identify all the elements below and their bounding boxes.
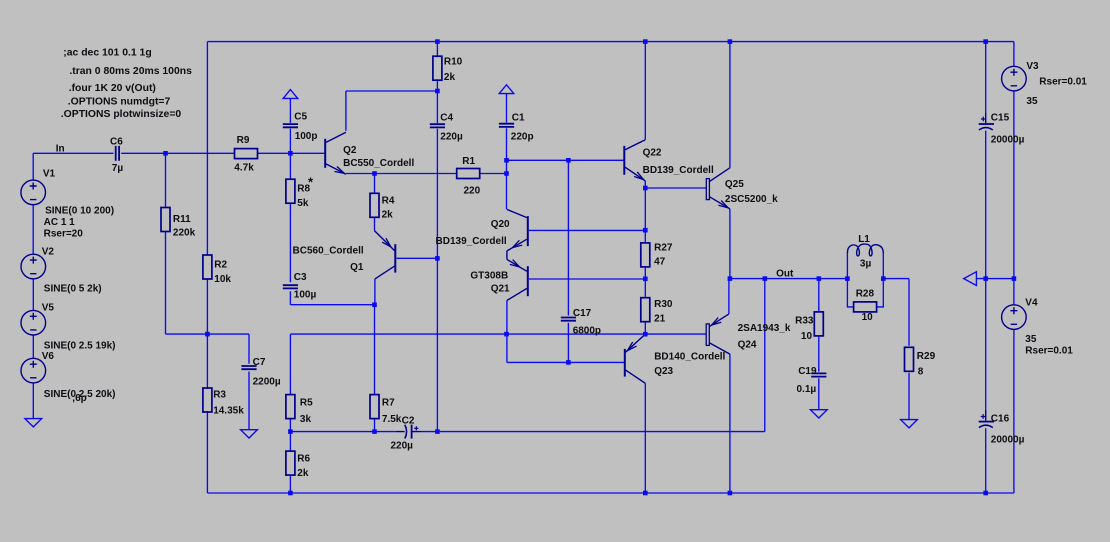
svg-text:.OPTIONS plotwinsize=0: .OPTIONS plotwinsize=0 — [61, 109, 182, 120]
svg-text:R28: R28 — [856, 288, 875, 299]
svg-text:SINE(0 5 2k): SINE(0 5 2k) — [44, 284, 102, 295]
ground below R29 — [901, 420, 918, 428]
svg-text:In: In — [56, 143, 65, 154]
inductor L1 — [847, 244, 883, 256]
wire Q1 collector R7 column — [374, 279, 376, 432]
svg-text:Q21: Q21 — [491, 283, 510, 294]
resistor R1 — [457, 169, 480, 179]
wire C7 column — [248, 334, 250, 430]
svg-text:C6: C6 — [110, 136, 123, 147]
wire R28 legs — [847, 279, 883, 307]
svg-text:.four 1K 20 v(Out): .four 1K 20 v(Out) — [69, 83, 156, 94]
wire left rail through R2 R3 — [206, 42, 208, 493]
wire Q23 collector to rail — [644, 383, 646, 493]
wire bottom negative rail — [207, 492, 1014, 494]
svg-text:100µ: 100µ — [294, 290, 317, 301]
wire C5 stem — [289, 98, 291, 153]
resistor R7 — [370, 395, 379, 419]
svg-text:,6p: ,6p — [72, 393, 86, 404]
resistor R9 — [235, 149, 258, 159]
capacitor C16 polarized — [985, 410, 987, 421]
transistor Q21 GT308B pnp mirrored — [527, 266, 529, 296]
junction — [643, 39, 648, 44]
voltage source V2 — [21, 254, 46, 279]
svg-text:V3: V3 — [1026, 61, 1039, 72]
svg-text:Q25: Q25 — [725, 179, 744, 190]
svg-text:V4: V4 — [1025, 298, 1038, 309]
svg-text:SINE(0 10 200): SINE(0 10 200) — [45, 206, 114, 217]
wire Q22 collector — [644, 42, 646, 140]
svg-text:;ac dec 101 0.1 1g: ;ac dec 101 0.1 1g — [63, 48, 151, 59]
svg-text:10: 10 — [862, 312, 874, 323]
junction — [504, 332, 509, 337]
transistor Q22 BD139 npn — [623, 146, 625, 175]
wire C1 column — [506, 94, 508, 209]
wire Q21 base to R30 top — [529, 278, 645, 280]
svg-text:V6: V6 — [42, 351, 55, 362]
wire C16 column — [985, 279, 987, 493]
ground below C7 — [241, 430, 258, 438]
resistor R33 — [814, 312, 823, 336]
junction — [435, 39, 440, 44]
capacitor C1 — [499, 124, 514, 127]
power flag above C1 — [499, 85, 514, 94]
svg-text:V2: V2 — [42, 247, 55, 258]
wire R5 R6 column — [289, 334, 291, 493]
svg-text:5k: 5k — [297, 198, 309, 209]
junction — [728, 491, 733, 496]
resistor R6 — [286, 451, 295, 475]
resistor R2 — [203, 255, 212, 279]
svg-text:10k: 10k — [214, 274, 231, 285]
svg-text:AC 1 1: AC 1 1 — [44, 217, 76, 228]
wire Q24 emitter to Out — [728, 279, 730, 314]
svg-text:BD139_Cordell: BD139_Cordell — [643, 165, 714, 176]
svg-text:C2: C2 — [402, 415, 415, 426]
junction — [728, 39, 733, 44]
svg-text:C4: C4 — [440, 112, 453, 123]
svg-text:R4: R4 — [382, 195, 395, 206]
wire Q20 base to R27 top — [529, 229, 645, 231]
wire R4 branch — [374, 174, 376, 231]
svg-text:Q23: Q23 — [654, 366, 673, 377]
wire Q22 emitter to Q25 base — [645, 181, 706, 188]
wire Q1 base to C4 node — [396, 257, 437, 259]
svg-text:BD139_Cordell: BD139_Cordell — [436, 236, 507, 247]
junction — [817, 276, 822, 281]
left arrow power flag at mid rail — [964, 272, 977, 286]
junction — [435, 89, 440, 94]
junction — [983, 491, 988, 496]
svg-text:Rser=0.01: Rser=0.01 — [1025, 345, 1073, 356]
svg-text:220p: 220p — [511, 132, 534, 143]
svg-text:35: 35 — [1026, 96, 1038, 107]
voltage source V1 symbol — [21, 180, 46, 205]
svg-text:R5: R5 — [300, 398, 313, 409]
svg-text:14.35k: 14.35k — [213, 406, 244, 417]
resistor R8 — [286, 179, 295, 203]
junction — [566, 360, 571, 365]
junction — [643, 491, 648, 496]
wire V3 branch — [1013, 42, 1015, 279]
wire R33 C19 branch — [818, 279, 820, 410]
svg-text:GT308B: GT308B — [470, 270, 508, 281]
svg-text:Q2: Q2 — [343, 145, 357, 156]
wire C17 column — [567, 160, 569, 362]
svg-text:2SA1943_k: 2SA1943_k — [738, 323, 791, 334]
wire Q21 collector to Q23 base — [507, 301, 625, 363]
svg-text:BD140_Cordell: BD140_Cordell — [654, 352, 725, 363]
capacitor C17 — [561, 318, 576, 321]
svg-text:2200µ: 2200µ — [253, 376, 281, 387]
junction — [372, 429, 377, 434]
svg-text:220µ: 220µ — [391, 441, 414, 452]
svg-text:220: 220 — [464, 185, 481, 196]
transistor Q23 BD140 pnp — [624, 349, 626, 377]
wire Out row to R29 — [730, 279, 909, 346]
svg-text:R27: R27 — [654, 242, 673, 253]
junction — [566, 158, 571, 163]
svg-text:10: 10 — [801, 331, 813, 342]
junction — [728, 276, 733, 281]
voltage source V3 — [1002, 66, 1027, 91]
voltage source V5 — [21, 310, 46, 335]
resistor R4 — [370, 193, 379, 217]
svg-text:R6: R6 — [297, 454, 310, 465]
svg-text:2SC5200_k: 2SC5200_k — [725, 194, 778, 205]
junction — [1012, 276, 1017, 281]
wire input row In — [33, 152, 324, 154]
svg-text:R7: R7 — [382, 398, 395, 409]
svg-text:3k: 3k — [300, 414, 312, 425]
capacitor C15 polarized — [985, 112, 987, 123]
junction — [845, 276, 850, 281]
resistor R11 — [161, 208, 170, 232]
svg-text:Q22: Q22 — [643, 147, 662, 158]
wire R10 C4 column — [436, 42, 438, 432]
svg-text:C16: C16 — [991, 413, 1010, 424]
svg-text:6800p: 6800p — [573, 326, 601, 337]
wire R29 to ground — [908, 373, 910, 420]
junction — [288, 151, 293, 156]
svg-text:21: 21 — [654, 313, 666, 324]
wire Q22 base row — [507, 159, 625, 161]
voltage source V6 — [21, 358, 46, 383]
svg-text:Out: Out — [776, 268, 794, 279]
svg-text:0.1µ: 0.1µ — [797, 384, 817, 395]
wire C15 column — [985, 42, 987, 279]
transistor Q2 BC550 npn — [324, 139, 326, 168]
svg-text:220k: 220k — [173, 228, 196, 239]
capacitor C6 — [116, 146, 119, 161]
svg-text:100p: 100p — [295, 131, 318, 142]
junction — [504, 171, 509, 176]
junction — [435, 256, 440, 261]
wire R8 C3 column — [290, 153, 374, 304]
svg-text:R2: R2 — [214, 260, 227, 271]
svg-text:R30: R30 — [654, 299, 673, 310]
transistor Q25 2SC5200 npn power — [706, 179, 709, 200]
wire Q24 collector to rail — [729, 354, 731, 493]
junction — [288, 429, 293, 434]
svg-text:C17: C17 — [573, 308, 592, 319]
svg-text:R9: R9 — [237, 135, 250, 146]
svg-text:35: 35 — [1025, 334, 1037, 345]
wire top positive rail — [207, 41, 1014, 43]
svg-text:7µ: 7µ — [112, 163, 124, 174]
wire bias row to Q24 base — [290, 333, 706, 335]
svg-text:C19: C19 — [798, 366, 817, 377]
wire source chain V1 V2 V5 V6 — [32, 153, 34, 418]
junction — [881, 276, 886, 281]
junction — [205, 332, 210, 337]
svg-text:Rser=20: Rser=20 — [44, 228, 84, 239]
capacitor C19 — [811, 373, 826, 376]
wire Q2 collector to R10 node — [346, 91, 438, 131]
svg-text:R33: R33 — [795, 316, 814, 327]
svg-text:2k: 2k — [297, 468, 309, 479]
capacitor C4 — [430, 124, 445, 127]
svg-text:Q24: Q24 — [738, 340, 757, 351]
power flag above C5 — [283, 90, 298, 99]
junction — [643, 186, 648, 191]
svg-text:R10: R10 — [444, 56, 463, 67]
junction — [163, 151, 168, 156]
capacitor C3 — [283, 285, 298, 288]
svg-text:8: 8 — [918, 366, 924, 377]
wire Q25 emitter to Out — [729, 209, 731, 279]
ground below C19 — [810, 410, 827, 418]
wire feedback row through C2 — [290, 431, 764, 433]
svg-text:C5: C5 — [294, 112, 307, 123]
wire Q25 collector — [729, 42, 731, 168]
svg-text:R3: R3 — [213, 390, 226, 401]
wire emitter row through R1 — [346, 173, 507, 175]
junction — [643, 332, 648, 337]
svg-text:C7: C7 — [253, 357, 266, 368]
svg-text:V5: V5 — [42, 303, 55, 314]
svg-text:.OPTIONS numdgt=7: .OPTIONS numdgt=7 — [68, 96, 171, 107]
capacitor C7 — [241, 366, 256, 369]
resistor R5 — [286, 395, 295, 419]
svg-text:220µ: 220µ — [440, 132, 463, 143]
svg-text:SINE(0 2.5 19k): SINE(0 2.5 19k) — [44, 340, 116, 351]
svg-text:2k: 2k — [382, 209, 394, 220]
junction — [372, 171, 377, 176]
wire feedback column — [764, 279, 766, 432]
svg-text:.tran 0 80ms 20ms 100ns: .tran 0 80ms 20ms 100ns — [69, 66, 192, 77]
svg-text:20000µ: 20000µ — [991, 135, 1025, 146]
capacitor C5 — [283, 124, 298, 127]
junction — [435, 429, 440, 434]
svg-text:20000µ: 20000µ — [991, 434, 1025, 445]
svg-text:L1: L1 — [858, 234, 870, 245]
ground below V6 — [25, 419, 42, 427]
svg-text:Q1: Q1 — [350, 262, 364, 273]
wire L1 legs — [847, 253, 883, 279]
junction — [504, 158, 509, 163]
junction — [643, 277, 648, 282]
junction — [983, 276, 988, 281]
svg-text:R11: R11 — [173, 214, 191, 225]
resistor R3 — [203, 388, 212, 412]
svg-text:2k: 2k — [444, 72, 456, 83]
junction — [983, 39, 988, 44]
transistor Q20 BD139 npn mirrored — [527, 216, 529, 246]
svg-text:4.7k: 4.7k — [234, 163, 254, 174]
wire R11 column to lower row — [166, 153, 250, 334]
resistor R30 — [641, 298, 650, 322]
wire R27 R30 column — [644, 188, 646, 334]
svg-text:C1: C1 — [512, 112, 525, 123]
svg-text:C15: C15 — [991, 113, 1010, 124]
voltage source V4 — [1002, 305, 1027, 330]
svg-text:7.5k: 7.5k — [382, 414, 402, 425]
junction — [372, 302, 377, 307]
svg-text:R1: R1 — [462, 156, 475, 167]
svg-text:C3: C3 — [294, 272, 307, 283]
svg-text:47: 47 — [654, 257, 666, 268]
resistor R10 — [433, 56, 442, 80]
resistor R29 — [905, 347, 914, 371]
capacitor C2 polarized — [396, 431, 422, 433]
svg-text:BC550_Cordell: BC550_Cordell — [343, 158, 414, 169]
wire mid rail — [976, 278, 1014, 280]
svg-text:R29: R29 — [917, 351, 936, 362]
svg-text:3µ: 3µ — [860, 259, 872, 270]
resistor R27 — [641, 243, 650, 267]
junction — [288, 491, 293, 496]
wire V4 branch — [1013, 279, 1015, 493]
svg-text:BC560_Cordell: BC560_Cordell — [293, 246, 364, 257]
transistor Q24 2SA1943 pnp power — [706, 324, 709, 346]
svg-text:V1: V1 — [43, 169, 56, 180]
junction — [763, 276, 768, 281]
resistor R28 — [854, 302, 877, 312]
svg-text:Q20: Q20 — [491, 219, 510, 230]
junction — [643, 228, 648, 233]
transistor Q1 BC560 pnp — [394, 244, 396, 272]
svg-text:Rser=0.01: Rser=0.01 — [1039, 76, 1087, 87]
